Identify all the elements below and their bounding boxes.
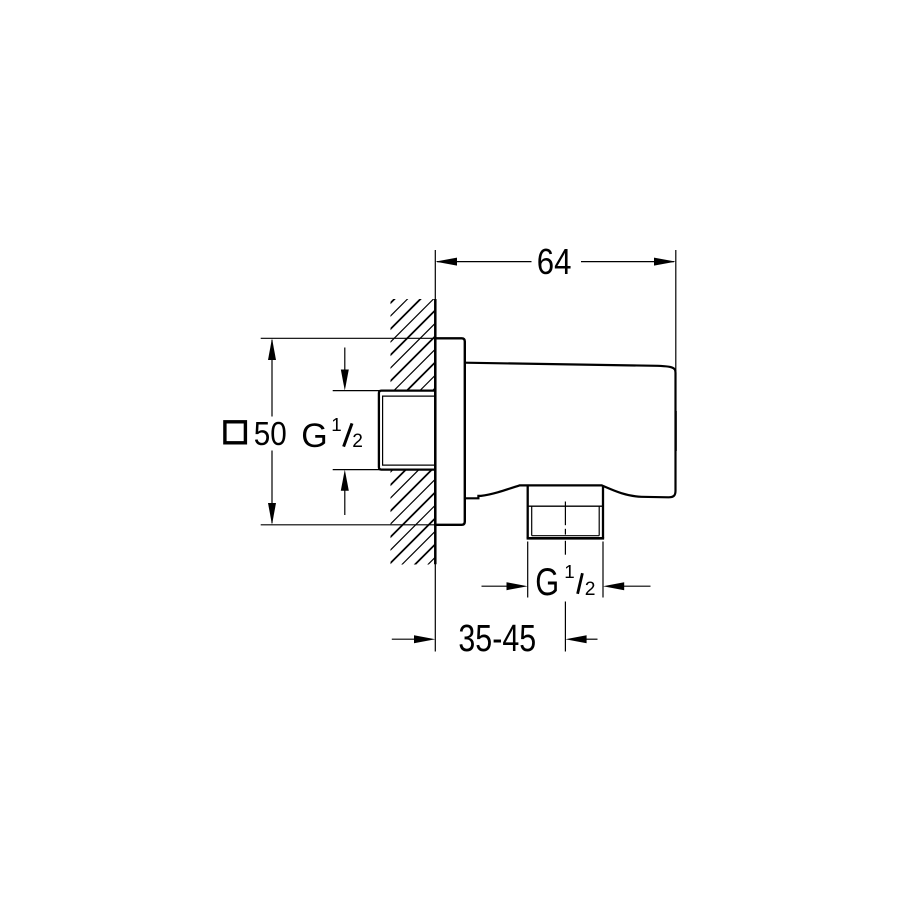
wall hatching: [389, 297, 696, 604]
dimension G1/2 bottom arrows: [482, 585, 651, 587]
svg-text:G: G: [535, 561, 559, 604]
dimension square-50 arrowheads: [268, 338, 276, 360]
G1/2 left extension lines: [333, 391, 380, 470]
body parting tick: [675, 411, 677, 451]
body outline: [465, 363, 676, 499]
svg-text:50: 50: [254, 416, 287, 453]
dimension square-50 extension lines: [261, 338, 436, 525]
svg-text:1: 1: [331, 414, 341, 435]
svg-text:G: G: [301, 417, 327, 455]
dimension 64 line: [437, 261, 674, 263]
svg-text:64: 64: [537, 241, 572, 282]
dimension square-50 line: [271, 340, 273, 523]
centerline outlet axis: [564, 502, 566, 652]
svg-text:35-45: 35-45: [458, 618, 536, 660]
wall line: [434, 250, 436, 652]
svg-text:2: 2: [352, 431, 363, 452]
flange escutcheon: [435, 338, 465, 525]
dimension 64 extension line right: [675, 250, 677, 373]
inlet port inner lines: [383, 396, 436, 465]
svg-text:2: 2: [585, 579, 596, 600]
outlet pipe G1/2: [527, 485, 605, 538]
inlet port G1/2 outer: [379, 391, 435, 470]
dimension 35-45 arrows: [392, 638, 598, 640]
G1/2 left arrows: [344, 348, 346, 516]
dimension G1/2 bottom extension lines: [528, 542, 603, 598]
dimension 64 arrowheads: [435, 258, 457, 266]
svg-text:1: 1: [564, 561, 574, 582]
square symbol: [225, 422, 246, 443]
